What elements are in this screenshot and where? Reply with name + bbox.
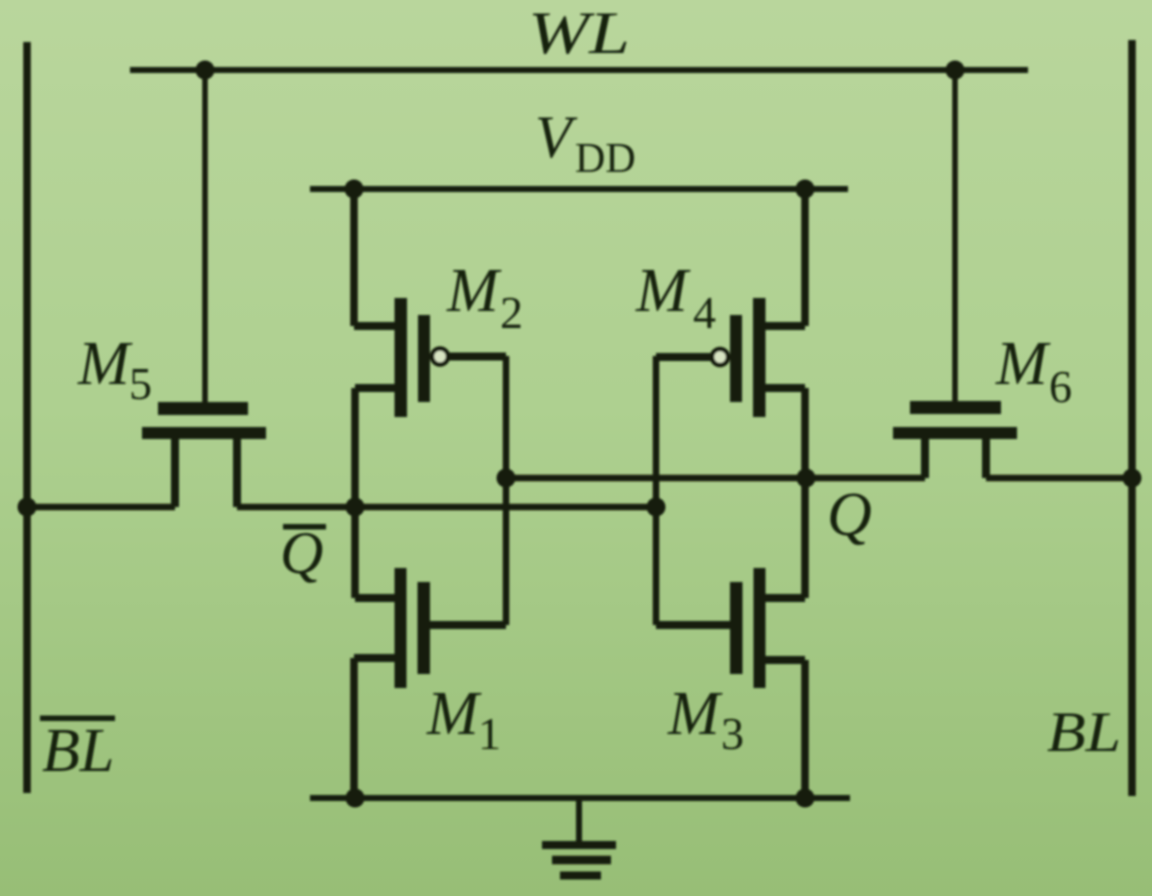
junction ground-M3 <box>796 789 815 808</box>
wire Qbar to M1 drain <box>351 507 359 598</box>
wire M2-M1 gate vertical <box>503 356 510 625</box>
junction WL-M6 <box>946 61 965 80</box>
transistor M2 (PMOS) <box>354 298 506 417</box>
junction Qbar to right gates <box>647 498 666 517</box>
svg-text:1: 1 <box>478 708 501 759</box>
svg-text:M: M <box>77 330 133 398</box>
svg-text:M: M <box>446 257 502 325</box>
junction Q to left gates <box>497 469 516 488</box>
svg-text:M: M <box>995 330 1051 398</box>
svg-text:5: 5 <box>129 358 152 409</box>
wire VDD to M4 source <box>801 189 809 326</box>
junction BLbar tap <box>18 498 37 517</box>
svg-text:WL: WL <box>528 0 630 66</box>
wire VDD to M2 source <box>350 189 358 326</box>
svg-text:M: M <box>635 257 691 325</box>
junction WL-M5 <box>196 61 215 80</box>
junction ground-M1 <box>346 789 365 808</box>
wire M4-M3 gate vertical <box>653 356 660 625</box>
svg-text:DD: DD <box>575 136 636 182</box>
svg-text:3: 3 <box>721 708 744 759</box>
svg-text:Q: Q <box>280 520 323 586</box>
wire M3 source to ground rail <box>801 660 809 798</box>
wire M1 source to ground rail <box>350 658 358 798</box>
svg-text:6: 6 <box>1049 361 1072 412</box>
wire M4 drain through Q to M3 drain <box>801 388 809 598</box>
svg-text:V: V <box>535 104 578 170</box>
wire M5 gate from WL <box>202 67 208 402</box>
junction VDD-M4 <box>796 180 815 199</box>
transistor M3 (NMOS) <box>656 568 805 688</box>
ground <box>542 798 616 876</box>
junction VDD-M2 <box>345 180 364 199</box>
wire WL rail <box>130 67 1028 73</box>
transistor M4 (PMOS) <box>656 298 805 417</box>
wire Q node to M1/M2 gates <box>506 475 925 482</box>
wire VDD rail <box>310 186 848 192</box>
transistor M5 (NMOS pass gate) <box>142 402 266 507</box>
svg-text:M: M <box>667 680 723 748</box>
transistor M1 (NMOS) <box>354 568 506 688</box>
svg-text:BL: BL <box>1047 701 1121 764</box>
wire M2 drain to Qbar <box>351 388 359 507</box>
wire BLbar to M5 source <box>27 504 175 511</box>
wire BL bit line <box>1128 40 1136 796</box>
svg-text:BL: BL <box>42 717 114 785</box>
wire ground rail <box>310 795 850 801</box>
svg-text:Q: Q <box>827 481 872 549</box>
node Q <box>797 469 816 488</box>
wire BLbar bit line <box>23 42 31 793</box>
junction BL tap <box>1123 469 1142 488</box>
svg-text:4: 4 <box>693 287 716 338</box>
svg-text:M: M <box>426 680 482 748</box>
svg-text:2: 2 <box>500 287 523 338</box>
transistor M6 (NMOS pass gate) <box>893 401 1017 478</box>
wire M5 drain to Qbar node to M4/M3 gates <box>237 504 656 511</box>
wire M6 gate from WL <box>952 67 958 401</box>
wire M6 drain to BL <box>986 475 1132 482</box>
node Qbar <box>346 498 365 517</box>
